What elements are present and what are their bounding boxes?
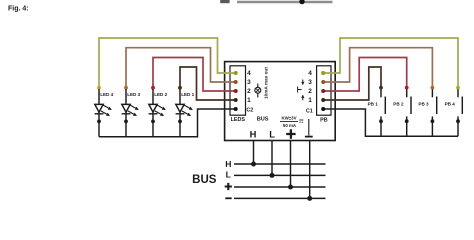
svg-text:PB: PB — [320, 117, 328, 123]
terminal - bar — [305, 136, 313, 138]
wire: C1 pin 3 to PB3 (orange) — [323, 48, 432, 88]
bus line H — [234, 163, 326, 165]
svg-text:L: L — [269, 129, 275, 140]
LED 1 — [176, 86, 195, 137]
terminal + — [286, 129, 295, 138]
svg-text:H: H — [225, 159, 231, 169]
svg-text:2: 2 — [308, 88, 312, 95]
bus line L — [234, 174, 326, 176]
connector C1 pin 4 — [321, 71, 325, 75]
wire: L drop to bus — [271, 141, 273, 176]
svg-text:C1: C1 — [306, 109, 313, 115]
junction H — [251, 162, 256, 167]
svg-text:1: 1 — [247, 97, 251, 104]
LED 3 — [122, 86, 141, 137]
wire: H drop to bus — [253, 141, 255, 165]
bus line + — [234, 186, 326, 188]
connector C2 pin 3 — [234, 80, 238, 84]
svg-text:PB 4: PB 4 — [445, 101, 456, 106]
wire: C1 pin 1 to PB1 (brown) — [323, 67, 381, 100]
connector C2 pin 2 — [234, 89, 238, 93]
LED 2 — [149, 86, 168, 137]
connector C2 pin C — [234, 107, 238, 111]
module U1 body — [225, 62, 336, 141]
wire: LED3 to C2 pin 3 (orange) — [126, 48, 235, 88]
push button PB3 — [418, 86, 436, 137]
svg-text:Fig. 4:: Fig. 4: — [8, 6, 29, 13]
svg-text:3: 3 — [308, 79, 312, 86]
svg-text:2: 2 — [247, 88, 251, 95]
wire: PB common return from C1 pin C — [323, 109, 458, 136]
svg-text:LED 4: LED 4 — [100, 92, 113, 97]
svg-text:L: L — [226, 170, 231, 180]
svg-text:LED 2: LED 2 — [154, 92, 167, 97]
push button PB4 — [445, 86, 463, 137]
svg-text:PB 2: PB 2 — [393, 101, 404, 106]
svg-text:C2: C2 — [246, 108, 253, 114]
bus label + — [225, 183, 232, 190]
wire: LED1 to C2 pin 1 (brown) — [180, 67, 235, 100]
svg-text:10mA max out: 10mA max out — [263, 67, 268, 99]
lamp symbol (LED output indicator) — [255, 84, 261, 98]
bus label - bar — [225, 197, 231, 199]
svg-text:3: 3 — [247, 79, 251, 86]
LED 4 — [95, 86, 114, 137]
push button PB2 — [393, 86, 411, 137]
connector mating symbol at C1 — [298, 80, 303, 101]
svg-text:4: 4 — [308, 70, 312, 77]
connector C2 pin 4 — [234, 71, 238, 75]
wire: C1 pin 4 to PB4 (yellow) — [323, 38, 458, 88]
connector C2 body — [230, 66, 246, 115]
cropped remnant: dark tick — [220, 0, 229, 3]
svg-text:PB 3: PB 3 — [418, 101, 429, 106]
wire: + drop to bus — [290, 141, 292, 188]
svg-text:1: 1 — [308, 97, 312, 104]
internal wire to terminal - — [308, 119, 310, 136]
C2 pin numbers — [247, 70, 251, 104]
bus line - — [234, 197, 326, 199]
connector C1 pin 3 — [321, 80, 325, 84]
wire: C1 pin 2 to PB2 (red) — [323, 58, 407, 92]
connector C1 pin C — [321, 107, 325, 111]
connector C2 pin 1 — [234, 98, 238, 102]
wire: LED common return to C2 pin C — [99, 109, 235, 137]
svg-text:LED 1: LED 1 — [181, 92, 194, 97]
svg-text:KW±3V: KW±3V — [281, 115, 296, 120]
wire: LED2 to C2 pin 2 (red) — [153, 58, 235, 92]
wire: - drop to bus — [309, 141, 311, 199]
svg-text:LEDS: LEDS — [231, 117, 246, 123]
C1 pin numbers — [308, 70, 312, 104]
wire: LED4 to C2 pin 4 (yellow) — [99, 38, 235, 88]
cropped remnant: junction dot — [299, 0, 304, 4]
connector C1 pin 1 — [321, 98, 325, 102]
junction + — [288, 185, 293, 190]
svg-text:LED 3: LED 3 — [127, 92, 140, 97]
connector C1 body — [317, 66, 331, 115]
push button PB1 — [368, 86, 386, 137]
svg-text:BUS: BUS — [257, 116, 269, 122]
cropped remnant of upper figure: grey bus line — [237, 1, 333, 3]
svg-text:50 mA: 50 mA — [283, 123, 297, 128]
svg-text:4: 4 — [247, 70, 251, 77]
junction - — [307, 196, 312, 201]
svg-text:H: H — [250, 129, 257, 140]
junction L — [270, 173, 275, 178]
svg-text:PB 1: PB 1 — [368, 101, 379, 106]
rating note fraction — [280, 115, 303, 128]
svg-text:BUS: BUS — [192, 174, 217, 186]
connector C1 pin 2 — [321, 89, 325, 93]
